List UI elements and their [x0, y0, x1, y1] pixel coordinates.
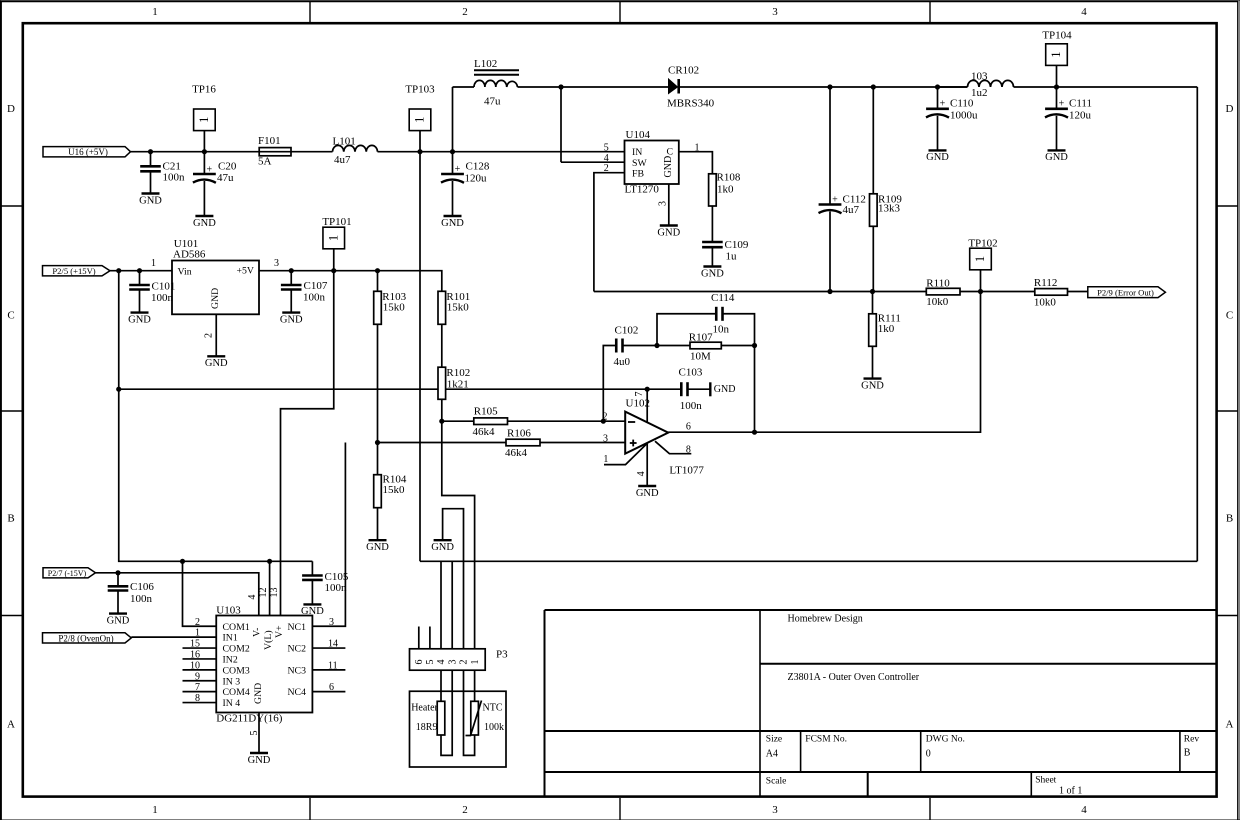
junction C101 node	[137, 268, 142, 273]
svg-text:R106: R106	[507, 428, 531, 440]
wire U103 V(L) riser	[269, 561, 271, 615]
svg-text:P2/8 (OvenOn): P2/8 (OvenOn)	[58, 633, 113, 643]
heater NTC assembly box	[410, 691, 507, 767]
wire R103 bottom to R106 node	[377, 324, 379, 442]
svg-text:NC1: NC1	[287, 622, 306, 633]
wire U103 pin10 stub	[183, 669, 217, 671]
svg-text:IN: IN	[632, 147, 642, 158]
wire U103 pin15 stub	[183, 647, 217, 649]
svg-text:Heater: Heater	[411, 702, 438, 713]
wire R111 to ground	[872, 346, 874, 378]
wire C128 node	[452, 152, 454, 174]
junction opamp pin2 C102 node	[601, 419, 606, 424]
svg-text:TP16: TP16	[192, 83, 216, 95]
svg-text:15k0: 15k0	[383, 484, 406, 496]
svg-text:GND: GND	[253, 683, 264, 704]
inductor L101	[333, 136, 378, 166]
svg-text:2: 2	[204, 333, 215, 338]
svg-text:LT1270: LT1270	[625, 183, 660, 195]
svg-text:COM4: COM4	[223, 687, 250, 698]
wire C114 right	[723, 314, 755, 432]
junction R103 node	[375, 268, 380, 273]
svg-text:2: 2	[462, 6, 468, 18]
svg-text:14: 14	[328, 639, 338, 650]
fuse F101	[258, 135, 291, 168]
ground U103 pin5	[248, 753, 271, 766]
power flag P2/8 (OvenOn)	[43, 633, 132, 644]
svg-text:12: 12	[258, 588, 269, 598]
svg-text:NC2: NC2	[287, 644, 306, 655]
resistor R105	[473, 405, 508, 438]
svg-text:D: D	[7, 103, 15, 115]
wire TP101 stub down	[281, 249, 334, 616]
svg-text:3: 3	[772, 6, 778, 18]
testpoint TP103	[405, 83, 435, 130]
wire P2/8 to U103 IN1	[131, 636, 216, 638]
wire C111 top	[1056, 87, 1058, 109]
wire P2/7 to U103 V-	[96, 573, 259, 616]
wire P2/5 to U101 Vin	[110, 270, 172, 272]
svg-text:U16 (+5V): U16 (+5V)	[68, 147, 108, 157]
wire U104 pin3 to ground	[668, 184, 670, 226]
zone tick right C|B	[1217, 410, 1238, 412]
ground C21	[139, 194, 162, 207]
wire C21 to ground	[150, 171, 152, 193]
svg-text:FCSM No.: FCSM No.	[805, 735, 847, 745]
op-amp pin 8 bent lead	[655, 441, 691, 454]
junction C102 C114 node	[654, 343, 659, 348]
ground C101	[128, 313, 151, 326]
svg-text:P2/5 (+15V): P2/5 (+15V)	[52, 266, 95, 276]
svg-text:8: 8	[195, 693, 200, 704]
svg-text:2: 2	[603, 412, 608, 423]
wire +5V rail after L101 to U104 IN pin 5	[378, 151, 625, 153]
svg-text:4: 4	[1081, 6, 1087, 18]
svg-text:47u: 47u	[217, 172, 234, 184]
svg-text:3: 3	[658, 201, 669, 206]
ground C110	[926, 150, 949, 163]
wire L102 right to SW node	[518, 86, 669, 88]
wire U103 COM1 riser	[183, 561, 217, 626]
wire R106 to op-amp pin 3	[540, 442, 625, 444]
svg-text:COM1: COM1	[223, 622, 250, 633]
svg-text:7: 7	[195, 682, 200, 693]
capacitor C112 polarized	[819, 194, 866, 216]
svg-text:COM3: COM3	[223, 665, 250, 676]
junction opamp V+ C103 node	[645, 387, 650, 392]
resistor R103	[374, 291, 407, 324]
svg-text:1: 1	[195, 628, 200, 639]
ground R111	[861, 379, 884, 392]
wire C107 to ground	[290, 290, 292, 313]
wire L103 left	[938, 86, 968, 88]
svg-text:11: 11	[328, 660, 338, 671]
wire C114 branch up	[657, 314, 716, 346]
svg-text:15: 15	[190, 639, 200, 650]
svg-text:15k0: 15k0	[383, 301, 406, 313]
svg-text:IN2: IN2	[223, 655, 238, 666]
capacitor C109	[702, 239, 749, 263]
wire U103 pin5 to ground	[258, 713, 260, 754]
ic U104 LT1270	[604, 129, 700, 206]
inductor L102 with core	[474, 58, 519, 108]
junction +15V node	[116, 268, 121, 273]
wire R105 line inverting input	[442, 420, 474, 422]
resistor Heater 18R9	[411, 701, 445, 735]
wire C20 to rail	[203, 152, 205, 174]
ground P3 pin2 jog	[431, 540, 454, 553]
junction C21 node	[148, 149, 153, 154]
svg-text:46k4: 46k4	[473, 426, 496, 438]
wire L103 right	[1014, 86, 1198, 88]
svg-text:1k0: 1k0	[878, 323, 895, 335]
svg-text:103: 103	[971, 71, 988, 83]
ic U101 AD586	[151, 238, 279, 338]
junction C111 TP104 node	[1054, 84, 1059, 89]
svg-text:+5V: +5V	[237, 266, 255, 277]
capacitor C110 polarized	[926, 97, 978, 121]
ground C109	[701, 267, 724, 280]
junction R109 rail node	[871, 84, 876, 89]
svg-text:+: +	[206, 165, 212, 176]
svg-text:4: 4	[436, 660, 447, 665]
svg-text:C: C	[1226, 310, 1233, 322]
junction R102 R105 node	[439, 419, 444, 424]
wire R105 to op-amp pin 2	[508, 420, 626, 422]
svg-text:5: 5	[604, 142, 609, 153]
junction C110 node	[935, 84, 940, 89]
wire P3 pin4 to heater	[440, 670, 442, 701]
svg-text:5: 5	[249, 731, 260, 736]
svg-text:3: 3	[447, 660, 458, 665]
svg-text:A: A	[7, 719, 15, 731]
wire C101 top	[139, 271, 141, 285]
capacitor C103	[679, 366, 703, 412]
svg-text:+: +	[940, 99, 946, 110]
svg-text:10M: 10M	[690, 350, 711, 362]
wire NC1 riser	[312, 443, 345, 627]
junction R103 R104 R106 node	[375, 440, 380, 445]
wire TP104 stub	[1056, 65, 1058, 87]
svg-text:7: 7	[634, 392, 645, 397]
svg-text:Z3801A - Outer Oven Controller: Z3801A - Outer Oven Controller	[788, 672, 920, 683]
wire C105 drop	[311, 561, 313, 575]
svg-text:13k3: 13k3	[878, 202, 901, 214]
zone tick bottom 1|2	[309, 798, 311, 820]
svg-text:3: 3	[603, 433, 608, 444]
svg-text:DWG No.: DWG No.	[926, 735, 965, 745]
svg-text:100n: 100n	[325, 582, 348, 594]
zone tick left C|B	[1, 410, 22, 412]
svg-text:V+: V+	[274, 625, 285, 638]
svg-text:TP104: TP104	[1042, 30, 1072, 42]
svg-text:R110: R110	[926, 278, 950, 290]
resistor R111	[869, 312, 901, 346]
wire L102 left to bumps	[453, 86, 475, 88]
wire R105 node to P3 pin1	[442, 421, 475, 649]
svg-text:2: 2	[459, 660, 470, 665]
svg-text:U103: U103	[216, 604, 241, 616]
wire R102 bottom to R105 node	[441, 399, 443, 421]
wire +5ref rail U101 pin3	[259, 271, 442, 292]
thermistor NTC 100k	[466, 701, 505, 736]
resistor R106	[505, 428, 540, 459]
wire R110 to TP102 node	[960, 291, 1035, 293]
svg-text:D: D	[1226, 103, 1234, 115]
capacitor C111 polarized	[1045, 97, 1092, 121]
power flag P2/7 (-15V)	[43, 568, 96, 579]
wire CR102 cathode to output rail	[679, 86, 968, 88]
svg-text:Homebrew Design: Homebrew Design	[788, 614, 863, 625]
svg-text:C103: C103	[679, 366, 703, 378]
svg-text:4u0: 4u0	[614, 356, 631, 368]
svg-text:C20: C20	[218, 161, 237, 173]
wire C21 to rail	[150, 152, 152, 167]
svg-text:IN 3: IN 3	[223, 676, 241, 687]
op-amp U102 LT1077	[603, 392, 705, 477]
svg-text:1: 1	[152, 6, 158, 18]
capacitor C101	[129, 281, 175, 305]
junction +15V opamp tap	[116, 387, 121, 392]
ic U103 DG211DY	[190, 588, 338, 736]
svg-text:C: C	[667, 146, 674, 157]
wire C20 to ground	[203, 181, 205, 216]
svg-text:B: B	[1184, 748, 1191, 759]
svg-text:100n: 100n	[680, 400, 703, 412]
wire TP16 stub	[203, 131, 205, 152]
wire C107 top	[290, 271, 292, 285]
wire error rail FB to R110	[594, 291, 926, 293]
svg-text:IN1: IN1	[223, 633, 238, 644]
connector P3	[410, 649, 509, 671]
svg-text:A: A	[1226, 719, 1234, 731]
testpoint TP102	[968, 238, 997, 270]
testpoint TP16	[192, 83, 216, 130]
svg-text:5A: 5A	[258, 155, 272, 167]
capacitor C20 polarized	[193, 161, 237, 184]
wire R107 right	[721, 345, 754, 347]
svg-text:GND: GND	[210, 288, 221, 309]
wire SW node down	[560, 87, 562, 162]
svg-text:100n: 100n	[130, 593, 153, 605]
wire R103 top	[377, 271, 379, 292]
wire +15V drop from P2/5 node	[119, 271, 313, 562]
svg-text:4: 4	[636, 471, 647, 476]
wire C112 top	[829, 87, 831, 205]
svg-text:R107: R107	[689, 332, 713, 344]
svg-text:GND: GND	[714, 384, 736, 395]
wire TP103 stub down through rail	[419, 131, 421, 562]
junction feedback output node	[752, 430, 757, 435]
svg-text:46k4: 46k4	[505, 447, 528, 459]
svg-text:10k0: 10k0	[1034, 296, 1057, 308]
inductor L103	[968, 71, 1014, 100]
ground op-amp pin4	[636, 486, 659, 499]
junction R109 R111 node	[870, 289, 875, 294]
svg-text:+: +	[832, 194, 838, 205]
svg-text:NTC: NTC	[483, 702, 503, 713]
wire C103 left	[647, 388, 681, 390]
svg-text:2: 2	[604, 163, 609, 174]
svg-text:B: B	[7, 513, 14, 525]
junction C112 error rail	[827, 289, 832, 294]
wire U101 pin2 to ground	[215, 314, 217, 356]
svg-text:V(L): V(L)	[263, 630, 274, 650]
svg-text:4: 4	[1081, 804, 1087, 816]
svg-text:2: 2	[195, 617, 200, 628]
wire op-amp pin4 to ground	[646, 442, 648, 486]
svg-text:1u: 1u	[726, 251, 738, 263]
svg-text:C128: C128	[466, 161, 490, 173]
zone tick right D|C	[1217, 205, 1238, 207]
svg-text:SW: SW	[632, 158, 647, 169]
svg-text:R112: R112	[1034, 277, 1057, 289]
svg-text:L101: L101	[333, 136, 356, 148]
wire C105 to ground	[311, 580, 313, 605]
power flag U16 (+5V)	[43, 147, 131, 158]
svg-text:+: +	[455, 164, 461, 175]
wire feedback from error rail down	[668, 292, 980, 433]
svg-text:B: B	[1226, 513, 1233, 525]
wire U103 pin16 stub	[183, 658, 217, 660]
svg-text:CR102: CR102	[668, 65, 699, 77]
svg-text:1: 1	[470, 660, 481, 665]
op-amp pin 1 bent lead	[604, 444, 647, 465]
power flag P2/9 (Error Out)	[1088, 287, 1166, 298]
svg-text:1 of 1: 1 of 1	[1059, 786, 1082, 797]
svg-text:15k0: 15k0	[447, 301, 470, 313]
wire +15V line to op-amp V+	[119, 388, 647, 390]
wire C101 to ground	[139, 290, 141, 313]
svg-text:Rev: Rev	[1184, 735, 1200, 745]
wire output rail right side down	[1196, 87, 1198, 561]
resistor R108	[709, 171, 741, 206]
svg-text:4: 4	[247, 595, 258, 600]
ground C107	[280, 313, 303, 326]
svg-text:C106: C106	[130, 581, 154, 593]
wire C109 to ground	[711, 247, 713, 266]
junction COM1 riser node	[180, 559, 185, 564]
wire TP102 stub	[980, 270, 982, 292]
svg-text:DG211DY(16): DG211DY(16)	[216, 713, 283, 725]
svg-text:Vin: Vin	[178, 266, 192, 277]
svg-text:C109: C109	[725, 239, 749, 251]
wire C106 top	[117, 573, 119, 587]
wire C103 to ground	[688, 388, 711, 390]
svg-text:TP102: TP102	[968, 238, 997, 250]
svg-text:120u: 120u	[465, 172, 488, 184]
svg-text:U104: U104	[626, 129, 651, 141]
junction C20 node	[202, 149, 207, 154]
svg-text:9: 9	[195, 671, 200, 682]
wire L102 left leg	[452, 87, 454, 152]
wire U103 pin7 stub	[183, 691, 217, 693]
resistor R101	[438, 291, 470, 324]
svg-text:Sheet: Sheet	[1035, 776, 1056, 786]
wire U104 FB pin 2	[594, 173, 625, 292]
svg-text:NC4: NC4	[287, 687, 306, 698]
testpoint TP104	[1042, 30, 1072, 66]
junction C107 node	[289, 268, 294, 273]
svg-text:1000u: 1000u	[950, 110, 978, 122]
svg-text:1: 1	[151, 258, 156, 269]
wire P3 pin4 riser	[440, 561, 442, 649]
capacitor C21	[140, 161, 185, 184]
svg-text:C101: C101	[152, 281, 176, 293]
junction TP101 node	[331, 268, 336, 273]
wire C128 to ground	[452, 181, 454, 216]
zone tick bottom 2|3	[619, 798, 621, 820]
svg-text:P2/7 (-15V): P2/7 (-15V)	[48, 569, 87, 578]
wire U103 pin8 stub	[183, 702, 217, 704]
wire P3 pin3 riser	[451, 561, 453, 649]
junction C106 node	[115, 570, 120, 575]
svg-text:Size: Size	[766, 735, 782, 745]
wire U103 NC3 stub	[312, 669, 345, 671]
svg-text:C114: C114	[711, 292, 735, 304]
ground C105	[301, 604, 324, 617]
svg-text:C111: C111	[1069, 97, 1092, 109]
svg-text:F101: F101	[258, 135, 281, 147]
resistor R110	[926, 278, 960, 308]
ground U104 pin3	[657, 226, 680, 239]
zone tick bottom 3|4	[929, 798, 931, 820]
wire P3 pin2 to ground jog	[443, 509, 464, 649]
ground C106	[107, 614, 130, 627]
wire R108 to C109	[711, 206, 713, 242]
svg-text:100n: 100n	[151, 292, 174, 304]
zone tick top 2|3	[619, 2, 621, 23]
junction TP102 node	[978, 289, 983, 294]
wire P3 pin1 to NTC	[474, 670, 476, 701]
wire R109 bottom	[872, 226, 874, 291]
resistor R109	[870, 193, 903, 226]
svg-text:100n: 100n	[163, 172, 186, 184]
svg-text:1k21: 1k21	[447, 378, 469, 390]
junction SW node	[558, 84, 563, 89]
zone tick top 3|4	[929, 2, 931, 23]
wire U103 NC2 stub	[312, 647, 345, 649]
svg-text:1: 1	[603, 454, 608, 465]
svg-text:C107: C107	[304, 280, 328, 292]
svg-text:100n: 100n	[303, 292, 326, 304]
svg-text:2: 2	[462, 804, 468, 816]
zone tick left B|A	[1, 615, 22, 617]
svg-text:GND: GND	[663, 156, 674, 178]
wire U103 NC4 stub	[312, 691, 345, 693]
ground C20	[193, 216, 216, 229]
wire C102 branch	[603, 346, 616, 422]
power flag P2/5 (+15V)	[43, 266, 111, 277]
junction C112 node top	[827, 84, 832, 89]
junction C128 node	[450, 149, 455, 154]
svg-text:6: 6	[686, 421, 691, 432]
svg-text:P2/9 (Error Out): P2/9 (Error Out)	[1097, 288, 1154, 298]
svg-text:U102: U102	[626, 398, 650, 410]
svg-text:NC3: NC3	[287, 665, 306, 676]
svg-text:1: 1	[152, 804, 158, 816]
zone tick top 1|2	[309, 2, 311, 23]
wire U103 pin9 stub	[183, 680, 217, 682]
ground C111	[1045, 150, 1068, 163]
svg-text:A4: A4	[766, 749, 778, 760]
zone tick left D|C	[1, 205, 22, 207]
wire R112 to flag	[1068, 291, 1088, 293]
svg-text:MBRS340: MBRS340	[667, 98, 715, 110]
ground R104	[366, 540, 389, 553]
svg-text:V-: V-	[252, 628, 263, 637]
diode CR102 MBRS340	[667, 65, 715, 110]
